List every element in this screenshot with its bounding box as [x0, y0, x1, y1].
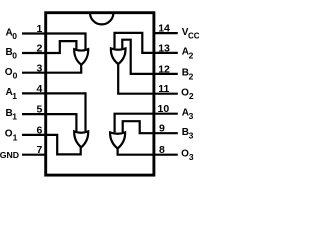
- svg-text:12: 12: [158, 63, 170, 75]
- wire gate G2 output to pin11 O2: [118, 63, 178, 93]
- svg-text:2: 2: [36, 43, 42, 55]
- wire gate G0 output to pin3 O0: [22, 64, 81, 73]
- svg-text:3: 3: [189, 111, 194, 121]
- svg-text:2: 2: [189, 71, 194, 81]
- svg-text:7: 7: [36, 144, 42, 156]
- IC body U1 (DIP-14 outline): [46, 13, 154, 175]
- svg-text:1: 1: [13, 132, 18, 142]
- svg-text:0: 0: [13, 71, 18, 81]
- svg-text:5: 5: [36, 104, 42, 116]
- svg-text:3: 3: [189, 131, 194, 141]
- svg-text:O: O: [181, 149, 189, 160]
- svg-text:4: 4: [36, 83, 42, 95]
- wire pin6 O1 to gate G1 output: [22, 135, 81, 155]
- svg-text:14: 14: [158, 23, 170, 35]
- svg-text:O: O: [5, 67, 13, 78]
- svg-text:8: 8: [159, 144, 165, 156]
- svg-text:3: 3: [36, 63, 42, 75]
- svg-text:0: 0: [12, 50, 17, 60]
- svg-text:3: 3: [189, 152, 194, 162]
- wire pin2 B0 to gate G0 input A: [22, 41, 76, 53]
- wire pin14 VCC stub: [154, 32, 178, 34]
- wire gate G3 output to pin8 O3: [118, 148, 178, 155]
- svg-text:1: 1: [12, 112, 17, 122]
- svg-text:O: O: [181, 88, 189, 99]
- OR gate G1 (pins 4,5 -> 6): [74, 131, 88, 147]
- wire pin12 B2 to gate G2 input B: [122, 40, 178, 74]
- svg-text:0: 0: [12, 31, 17, 41]
- wire pin1 A0 to gate G0 input B: [22, 34, 86, 50]
- wire pin4 A1 to gate G1 input B: [22, 93, 86, 131]
- svg-text:9: 9: [159, 123, 165, 135]
- wire pin10 A3 to gate G3 input A: [115, 114, 178, 133]
- svg-text:1: 1: [12, 91, 17, 101]
- wire pin13 A2 to gate G2 input A: [115, 33, 178, 53]
- svg-text:2: 2: [189, 50, 194, 60]
- OR gate G3 (pins 10,9 -> 8): [110, 132, 125, 148]
- svg-text:1: 1: [36, 23, 42, 35]
- svg-text:2: 2: [189, 91, 194, 101]
- svg-text:11: 11: [158, 83, 169, 95]
- svg-text:GND: GND: [0, 150, 19, 160]
- svg-text:CC: CC: [188, 32, 200, 41]
- svg-text:13: 13: [158, 42, 170, 54]
- OR gate G0 (pins 1,2 -> 3): [74, 49, 88, 64]
- OR gate G2 (pins 13,12 -> 11): [111, 48, 126, 64]
- svg-text:10: 10: [158, 103, 170, 115]
- svg-text:O: O: [5, 129, 13, 140]
- svg-text:6: 6: [36, 124, 42, 136]
- notch (pin-1 orientation semicircle): [90, 13, 113, 25]
- wire pin5 B1 to gate G1 input A: [22, 114, 76, 131]
- wire pin7 GND stub: [22, 154, 46, 156]
- wire pin9 B3 to gate G3 input B: [123, 121, 178, 133]
